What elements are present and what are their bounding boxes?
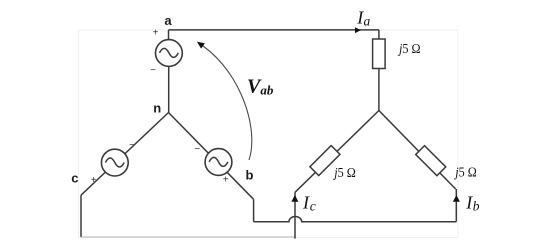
wire b corner riser (253, 199, 255, 221)
wire (light) c-phase bottom return from c to Ic riser (81, 236, 296, 238)
wire source Van top to a corner (168, 30, 170, 40)
svg-text:+: + (153, 28, 159, 39)
svg-text:−: − (150, 65, 156, 76)
wire corner down into phase-a load (378, 30, 380, 39)
resistor j5 ohm phase b (right diagonal) (416, 146, 446, 176)
arrow Ia on top wire (355, 27, 361, 33)
svg-text:+: + (91, 175, 97, 186)
faint bounding box (79, 30, 459, 238)
wire c corner riser (80, 195, 82, 237)
source Van (top AC source) (156, 40, 183, 67)
resistor j5 ohm phase a (vertical) (373, 39, 386, 69)
wire load centre to left leg diagonal (295, 111, 379, 193)
svg-text:c: c (71, 171, 78, 186)
wire bottom b-phase with hop over Ic riser (254, 217, 457, 222)
svg-text:j5 Ω: j5 Ω (397, 42, 420, 57)
source Vcn (left AC source) (101, 149, 128, 176)
wire Ib riser vertical (455, 189, 457, 222)
svg-text:a: a (164, 13, 172, 28)
wire Ic riser vertical (294, 192, 296, 238)
svg-text:+: + (223, 174, 229, 185)
wire diagonal b corner to node n (169, 113, 254, 200)
wire load centre to right leg diagonal (379, 111, 456, 190)
wire diagonal c corner to node n (81, 113, 169, 196)
resistor j5 ohm phase c (left diagonal) (310, 146, 340, 176)
svg-text:j5 Ω: j5 Ω (454, 165, 477, 180)
wire between resistor A and load centre node (378, 69, 380, 111)
Vab reference arc (203, 46, 252, 160)
svg-text:j5 Ω: j5 Ω (333, 166, 356, 181)
wire node n up to source Van (168, 66, 170, 112)
svg-text:−: − (129, 140, 135, 151)
svg-text:−: − (194, 144, 200, 155)
wire top line a to load corner (169, 29, 379, 31)
source Vbn (right AC source) (205, 149, 232, 176)
Vab arc arrowhead (197, 42, 205, 49)
svg-text:b: b (246, 168, 254, 183)
arrow Ic pointing up (291, 195, 298, 202)
svg-text:n: n (153, 101, 161, 116)
arrow Ib pointing up (453, 195, 460, 202)
